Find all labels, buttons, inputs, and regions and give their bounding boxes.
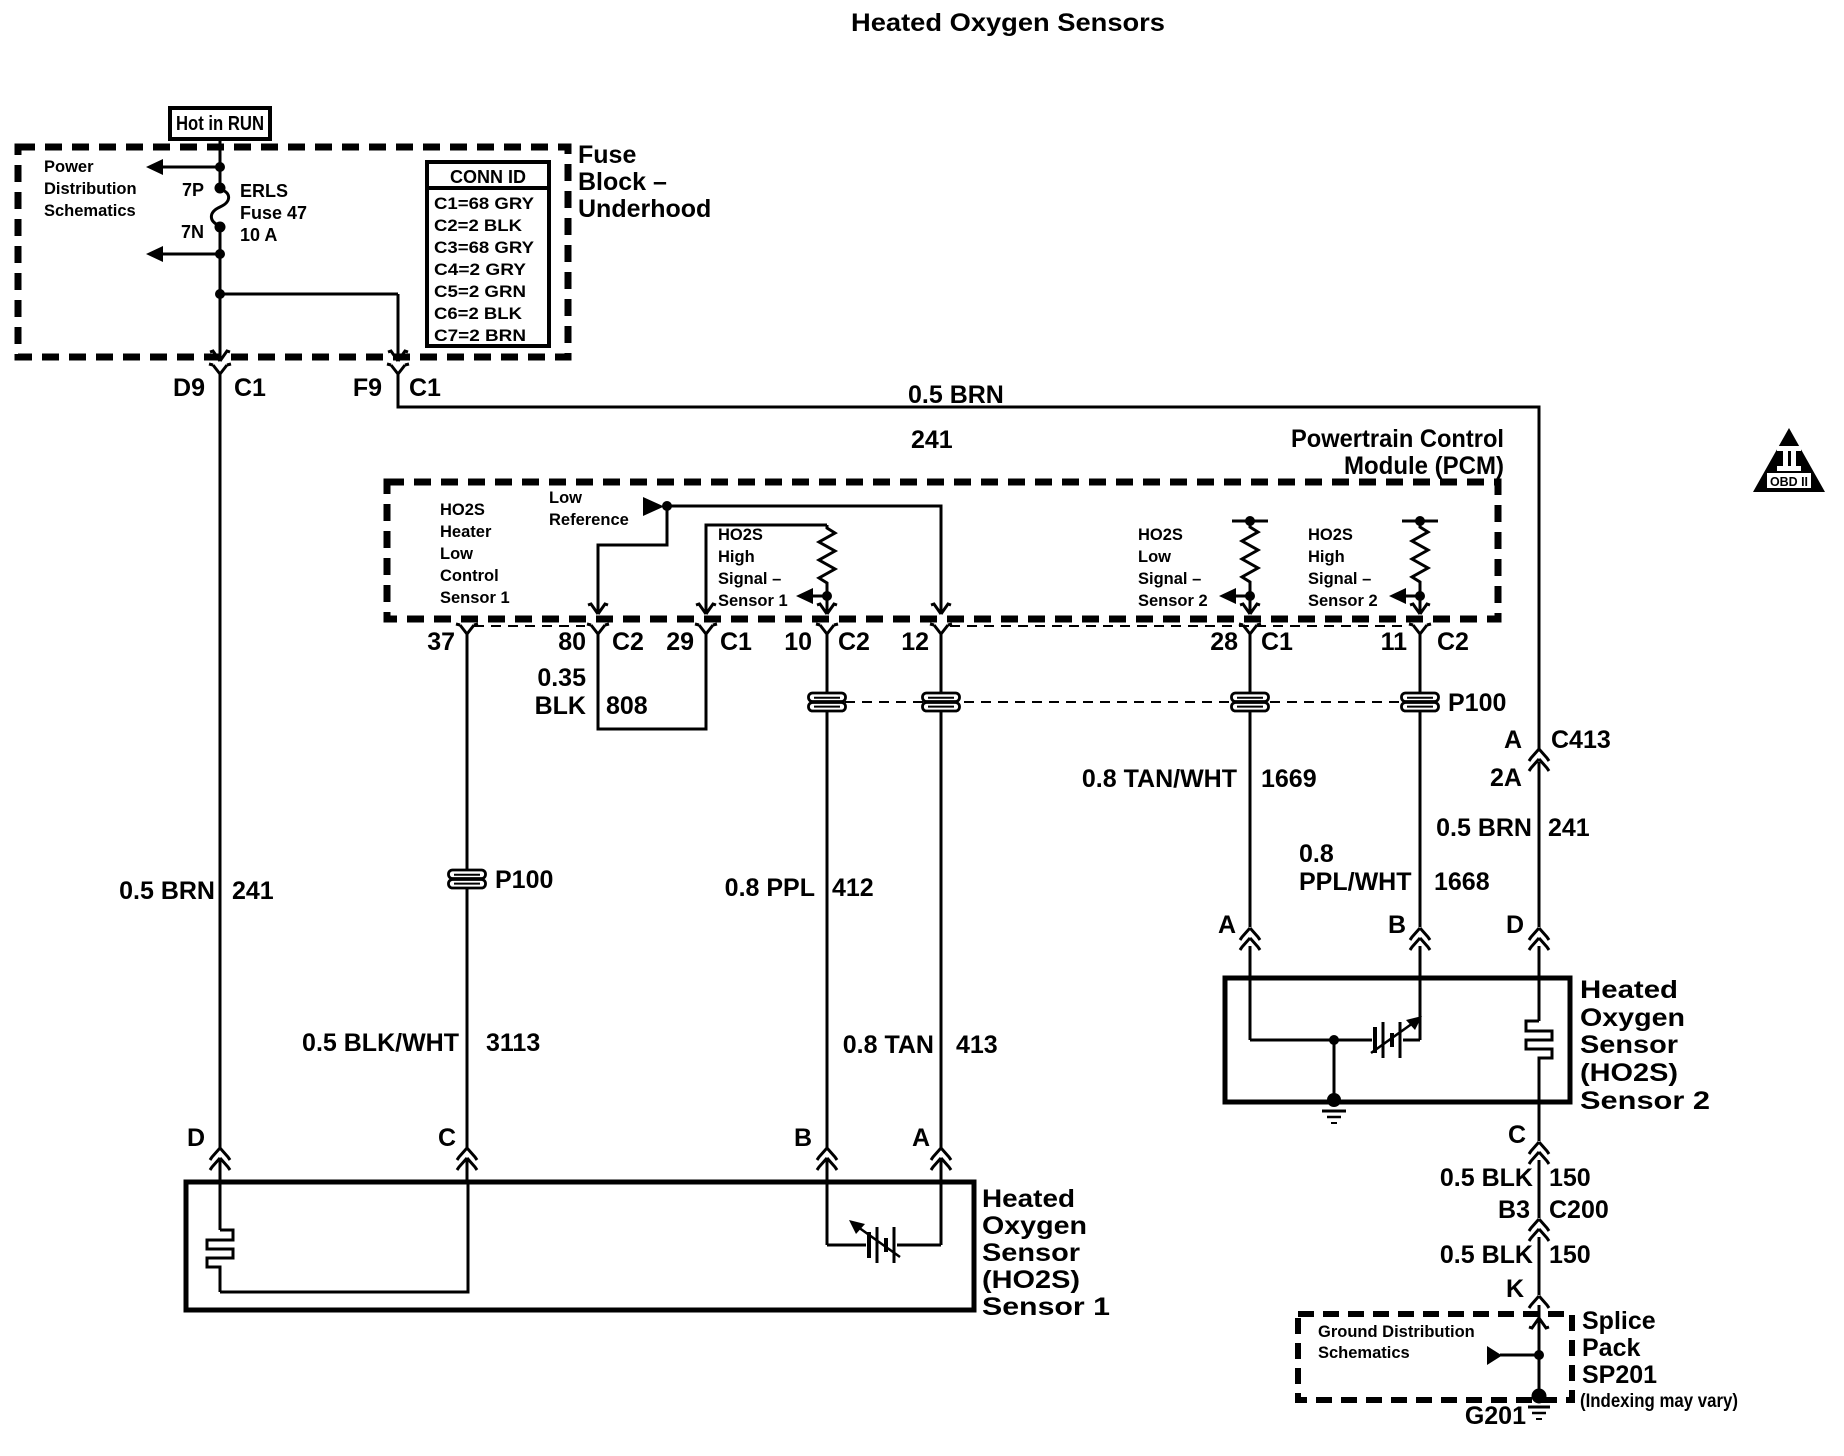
splice arrow to SP201 bbox=[1487, 1346, 1544, 1365]
svg-text:0.8 PPL: 0.8 PPL bbox=[725, 874, 815, 902]
pin D connector (sensor1) bbox=[187, 1124, 230, 1170]
pin 28 C1 connector bbox=[1210, 624, 1293, 656]
junction below R1 with left arrow bbox=[796, 588, 832, 612]
label 0.8 PPL 412 bbox=[725, 874, 874, 902]
svg-text:Hot in RUN: Hot in RUN bbox=[176, 113, 264, 135]
svg-text:12: 12 bbox=[901, 628, 929, 656]
Hot in RUN box bbox=[170, 108, 270, 139]
svg-text:241: 241 bbox=[1548, 814, 1590, 842]
svg-text:Heated Oxygen Sensors: Heated Oxygen Sensors bbox=[851, 9, 1165, 37]
label 0.35 BLK 808 bbox=[535, 664, 648, 720]
wire 0.5 BRN 241 to sensor 2 pin D bbox=[1538, 762, 1541, 927]
svg-text:Oxygen: Oxygen bbox=[982, 1212, 1087, 1240]
pin A connector (sensor2) bbox=[1218, 911, 1260, 950]
arrow to power distribution (top) bbox=[146, 159, 225, 175]
label 0.5 BRN 241 (left wire) bbox=[119, 877, 274, 905]
CONN ID table bbox=[427, 162, 549, 346]
pin C connector (sensor2) bbox=[1508, 1104, 1549, 1218]
grommet P100 on TAN wire bbox=[923, 693, 960, 711]
arrow into pin 12 bbox=[931, 604, 951, 614]
svg-text:A: A bbox=[1504, 726, 1522, 754]
svg-text:C2: C2 bbox=[838, 628, 870, 656]
svg-text:A: A bbox=[1218, 911, 1236, 939]
svg-text:OBD II: OBD II bbox=[1770, 474, 1808, 489]
label Fuse Block - Underhood bbox=[578, 141, 711, 223]
svg-text:Low: Low bbox=[549, 489, 582, 507]
svg-text:Heated: Heated bbox=[1580, 976, 1678, 1004]
pin B connector (sensor1) bbox=[794, 1124, 837, 1170]
svg-text:Low: Low bbox=[440, 545, 473, 563]
svg-text:C2: C2 bbox=[612, 628, 644, 656]
svg-text:BLK: BLK bbox=[535, 692, 586, 720]
svg-text:High: High bbox=[718, 548, 755, 566]
svg-text:C1=68 GRY: C1=68 GRY bbox=[434, 194, 535, 213]
svg-text:0.5 BRN: 0.5 BRN bbox=[1436, 814, 1532, 842]
wire 0.8 TAN 413 pin 12 to sensor1 A bbox=[940, 650, 943, 1182]
HO2S sensor 2 box bbox=[1225, 978, 1570, 1102]
junction node and branch wire to F9 bbox=[215, 289, 398, 360]
svg-text:Splice: Splice bbox=[1582, 1307, 1656, 1335]
pin 11 C2 connector bbox=[1381, 624, 1469, 656]
svg-text:Heater: Heater bbox=[440, 523, 492, 541]
wire low reference to pin 80 bbox=[598, 506, 667, 612]
svg-text:PPL/WHT: PPL/WHT bbox=[1299, 868, 1412, 896]
label 0.5 BRN 241 (right wire) bbox=[1436, 814, 1590, 842]
svg-text:P100: P100 bbox=[1448, 689, 1506, 717]
svg-text:C1: C1 bbox=[234, 374, 266, 402]
wire 0.8 PPL 412 pin 10 to sensor1 B bbox=[826, 650, 829, 1182]
svg-text:29: 29 bbox=[666, 628, 694, 656]
label Heated Oxygen Sensor (HO2S) Sensor 1 bbox=[982, 1185, 1110, 1321]
resistor R1 (HO2S high signal sensor 1) bbox=[819, 525, 835, 596]
svg-text:C1: C1 bbox=[720, 628, 752, 656]
pin D connector (sensor2) bbox=[1506, 911, 1549, 982]
svg-text:C4=2 GRY: C4=2 GRY bbox=[434, 260, 527, 279]
svg-text:HO2S: HO2S bbox=[1308, 526, 1353, 544]
junction below R3 with left arrow bbox=[1389, 588, 1425, 612]
label 0.8 TAN 413 bbox=[843, 1031, 998, 1059]
svg-text:C1: C1 bbox=[409, 374, 441, 402]
svg-text:0.8: 0.8 bbox=[1299, 840, 1334, 868]
label HO2S Low Signal - Sensor 2 bbox=[1138, 526, 1208, 610]
heater element (sensor 1) bbox=[207, 1184, 233, 1292]
label Heated Oxygen Sensor (HO2S) Sensor 2 bbox=[1580, 976, 1710, 1115]
wire 0.35 BLK 808 from pin 80 to pin 29 bbox=[598, 650, 706, 729]
label 0.5 BLK/WHT 3113 bbox=[302, 1029, 540, 1057]
svg-text:B: B bbox=[1388, 911, 1406, 939]
P100 pass-through dashed line bbox=[845, 701, 1436, 703]
pin 80 C2 connector bbox=[558, 624, 644, 656]
svg-text:Sensor 2: Sensor 2 bbox=[1308, 592, 1378, 610]
label 0.8 PPL/WHT 1668 bbox=[1299, 840, 1490, 896]
arrow into pin 11 bbox=[1410, 604, 1430, 614]
svg-text:B3: B3 bbox=[1498, 1196, 1530, 1224]
svg-text:28: 28 bbox=[1210, 628, 1238, 656]
wire 0.5 BRN 241 from F9 right and down right side bbox=[398, 390, 1539, 749]
label HO2S High Signal - Sensor 1 bbox=[718, 526, 788, 610]
svg-text:Sensor 1: Sensor 1 bbox=[982, 1293, 1110, 1321]
PCM dashed box bbox=[387, 482, 1498, 619]
svg-text:11: 11 bbox=[1381, 628, 1408, 656]
svg-text:D: D bbox=[187, 1124, 205, 1152]
svg-text:HO2S: HO2S bbox=[1138, 526, 1183, 544]
svg-text:0.5 BRN: 0.5 BRN bbox=[119, 877, 215, 905]
ground inside sensor 2 bbox=[1322, 1040, 1346, 1123]
svg-text:3113: 3113 bbox=[486, 1029, 540, 1057]
pin 10 C2 connector bbox=[784, 624, 870, 656]
pin A connector (sensor1) bbox=[912, 1124, 951, 1170]
svg-text:150: 150 bbox=[1549, 1241, 1591, 1269]
svg-text:D9: D9 bbox=[173, 374, 205, 402]
wire heater to pin C inside sensor 1 bbox=[220, 1184, 468, 1292]
svg-text:F9: F9 bbox=[353, 374, 382, 402]
fuse block underhood dashed box bbox=[18, 147, 568, 357]
svg-text:Control: Control bbox=[440, 567, 499, 585]
svg-text:C3=68 GRY: C3=68 GRY bbox=[434, 238, 535, 257]
svg-text:241: 241 bbox=[911, 426, 953, 454]
svg-text:Underhood: Underhood bbox=[578, 195, 711, 223]
svg-text:Sensor: Sensor bbox=[982, 1239, 1080, 1267]
grommet P100 on BLK/WHT wire bbox=[449, 866, 554, 894]
svg-text:P100: P100 bbox=[495, 866, 553, 894]
svg-text:C2: C2 bbox=[1437, 628, 1469, 656]
svg-text:Sensor 2: Sensor 2 bbox=[1138, 592, 1208, 610]
svg-text:(HO2S): (HO2S) bbox=[1580, 1059, 1678, 1087]
svg-text:Reference: Reference bbox=[549, 511, 629, 529]
svg-text:Powertrain Control: Powertrain Control bbox=[1291, 425, 1504, 453]
svg-text:HO2S: HO2S bbox=[440, 501, 485, 519]
wire 0.8 TAN/WHT 1669 pin 28 to sensor2 A bbox=[1249, 650, 1252, 982]
svg-text:ERLS: ERLS bbox=[240, 181, 288, 201]
wire 0.5 BRN 241 from D9 down to HO2S sensor 1 bbox=[219, 390, 222, 1182]
pin 12 connector bbox=[901, 624, 952, 656]
svg-text:C413: C413 bbox=[1551, 726, 1611, 754]
svg-text:0.5 BLK: 0.5 BLK bbox=[1440, 1241, 1533, 1269]
svg-text:Signal –: Signal – bbox=[1308, 570, 1371, 588]
resistor R3 (HO2S high signal sensor 2) bbox=[1402, 516, 1438, 596]
svg-text:7N: 7N bbox=[181, 222, 204, 242]
svg-text:Distribution: Distribution bbox=[44, 180, 137, 198]
svg-text:Oxygen: Oxygen bbox=[1580, 1004, 1685, 1032]
label 0.5 BLK 150 (lower) bbox=[1440, 1241, 1591, 1269]
svg-text:413: 413 bbox=[956, 1031, 998, 1059]
svg-text:C: C bbox=[438, 1124, 456, 1152]
wire from Hot in RUN down bbox=[219, 139, 222, 188]
junction below R2 with left arrow bbox=[1219, 588, 1255, 612]
svg-text:150: 150 bbox=[1549, 1164, 1591, 1192]
label 0.5 BLK 150 (upper) bbox=[1440, 1164, 1591, 1192]
resistor R2 (HO2S low signal sensor 2) bbox=[1232, 516, 1268, 596]
svg-text:Heated: Heated bbox=[982, 1185, 1075, 1213]
svg-text:HO2S: HO2S bbox=[718, 526, 763, 544]
wire below fuse bbox=[219, 227, 222, 294]
svg-text:C7=2 BRN: C7=2 BRN bbox=[434, 326, 526, 345]
down arrow at D9 exit bbox=[210, 351, 230, 361]
low reference node bbox=[549, 489, 672, 529]
connector D9 C1 bbox=[173, 364, 266, 402]
connector K into splice pack bbox=[1506, 1275, 1549, 1396]
svg-text:C5=2 GRN: C5=2 GRN bbox=[434, 282, 526, 301]
arrow into pin 29 bbox=[696, 604, 716, 614]
label Powertrain Control Module (PCM) bbox=[1291, 425, 1504, 480]
svg-text:Sensor 1: Sensor 1 bbox=[440, 589, 510, 607]
svg-text:Power: Power bbox=[44, 158, 94, 176]
label Power Distribution Schematics bbox=[44, 158, 137, 220]
OBD II triangle symbol bbox=[1753, 428, 1825, 492]
arrow into pin 80 bbox=[588, 604, 608, 614]
wire 0.5 BLK/WHT 3113 pin 37 to sensor1 C bbox=[466, 650, 469, 1182]
svg-text:1668: 1668 bbox=[1434, 868, 1490, 896]
svg-text:Low: Low bbox=[1138, 548, 1171, 566]
svg-text:0.8 TAN/WHT: 0.8 TAN/WHT bbox=[1082, 765, 1237, 793]
grommet P100 on TAN/WHT wire bbox=[1232, 693, 1269, 711]
connector B3 C200 bbox=[1498, 1196, 1609, 1295]
HO2S sensor 1 box bbox=[186, 1182, 974, 1310]
pin C connector (sensor1) bbox=[438, 1124, 477, 1170]
arrow into pin 28 bbox=[1240, 604, 1260, 614]
svg-text:241: 241 bbox=[232, 877, 274, 905]
svg-text:412: 412 bbox=[832, 874, 874, 902]
sensor element (sensor 2 battery with arrow) bbox=[1250, 982, 1422, 1058]
pin 37 connector bbox=[427, 624, 478, 656]
pin 29 C1 connector bbox=[666, 624, 752, 656]
svg-text:Ground Distribution: Ground Distribution bbox=[1318, 1323, 1475, 1341]
svg-text:Fuse 47: Fuse 47 bbox=[240, 203, 307, 223]
svg-text:Pack: Pack bbox=[1582, 1334, 1640, 1362]
svg-text:Sensor 2: Sensor 2 bbox=[1580, 1087, 1710, 1115]
svg-text:Sensor: Sensor bbox=[1580, 1031, 1678, 1059]
svg-text:C200: C200 bbox=[1549, 1196, 1609, 1224]
arrow to power distribution (bottom) bbox=[146, 246, 225, 262]
label Ground Distribution Schematics bbox=[1318, 1323, 1475, 1362]
svg-text:C1: C1 bbox=[1261, 628, 1293, 656]
svg-text:Sensor 1: Sensor 1 bbox=[718, 592, 788, 610]
HO2S high signal sensor 1 wires bbox=[706, 525, 827, 612]
svg-text:CONN ID: CONN ID bbox=[450, 167, 526, 187]
splice pack SP201 dashed box bbox=[1298, 1314, 1572, 1400]
label 0.5 BRN 241 (top run) bbox=[908, 381, 1004, 454]
connector A C413 bbox=[1490, 726, 1611, 792]
label HO2S Heater Low Control Sensor 1 bbox=[440, 501, 510, 607]
heater element (sensor 2) bbox=[1526, 982, 1552, 1104]
label HO2S High Signal - Sensor 2 bbox=[1308, 526, 1378, 610]
svg-text:Schematics: Schematics bbox=[44, 202, 136, 220]
svg-text:A: A bbox=[912, 1124, 930, 1152]
svg-text:C6=2 BLK: C6=2 BLK bbox=[434, 304, 523, 323]
svg-text:D: D bbox=[1506, 911, 1524, 939]
wire low reference to pin 12 bbox=[667, 506, 941, 612]
svg-text:K: K bbox=[1506, 1275, 1524, 1303]
svg-text:SP201: SP201 bbox=[1582, 1361, 1657, 1389]
svg-text:0.35: 0.35 bbox=[537, 664, 586, 692]
svg-text:808: 808 bbox=[606, 692, 648, 720]
PCM connector face thin dashed line bbox=[474, 625, 1404, 627]
down arrow at F9 exit bbox=[388, 351, 408, 361]
svg-text:(HO2S): (HO2S) bbox=[982, 1266, 1080, 1294]
svg-text:B: B bbox=[794, 1124, 812, 1152]
svg-text:2A: 2A bbox=[1490, 764, 1522, 792]
svg-text:0.8 TAN: 0.8 TAN bbox=[843, 1031, 934, 1059]
label 0.8 TAN/WHT 1669 bbox=[1082, 765, 1317, 793]
pin B connector (sensor2) bbox=[1388, 911, 1430, 950]
svg-text:Fuse: Fuse bbox=[578, 141, 636, 169]
svg-text:7P: 7P bbox=[182, 180, 204, 200]
svg-text:10: 10 bbox=[784, 628, 812, 656]
svg-text:High: High bbox=[1308, 548, 1345, 566]
ground G201 bbox=[1465, 1389, 1550, 1431]
svg-text:G201: G201 bbox=[1465, 1402, 1526, 1430]
grommet P100 on PPL wire bbox=[809, 693, 846, 711]
label Splice Pack SP201 (Indexing may vary) bbox=[1580, 1307, 1738, 1412]
svg-text:Schematics: Schematics bbox=[1318, 1344, 1410, 1362]
wire 0.8 PPL/WHT 1668 pin 11 to sensor2 B bbox=[1419, 650, 1422, 982]
connector F9 C1 bbox=[353, 364, 441, 402]
svg-text:(Indexing may vary): (Indexing may vary) bbox=[1580, 1391, 1738, 1412]
svg-text:0.5 BLK/WHT: 0.5 BLK/WHT bbox=[302, 1029, 459, 1057]
svg-text:C: C bbox=[1508, 1121, 1526, 1149]
svg-text:80: 80 bbox=[558, 628, 586, 656]
svg-text:37: 37 bbox=[427, 628, 455, 656]
svg-text:Block –: Block – bbox=[578, 168, 667, 196]
grommet P100 on PPL/WHT wire bbox=[1402, 689, 1507, 717]
fuse ERLS Fuse 47 10 A bbox=[181, 180, 307, 245]
sensor element (sensor 1 battery with arrow) bbox=[827, 1184, 941, 1263]
arrow into pin 10 bbox=[817, 604, 837, 614]
svg-text:0.5 BRN: 0.5 BRN bbox=[908, 381, 1004, 409]
svg-text:0.5 BLK: 0.5 BLK bbox=[1440, 1164, 1533, 1192]
svg-text:Signal –: Signal – bbox=[718, 570, 781, 588]
svg-text:Module (PCM): Module (PCM) bbox=[1344, 452, 1504, 480]
svg-text:10 A: 10 A bbox=[240, 225, 277, 245]
svg-text:1669: 1669 bbox=[1261, 765, 1317, 793]
svg-text:C2=2 BLK: C2=2 BLK bbox=[434, 216, 523, 235]
svg-text:Signal –: Signal – bbox=[1138, 570, 1201, 588]
